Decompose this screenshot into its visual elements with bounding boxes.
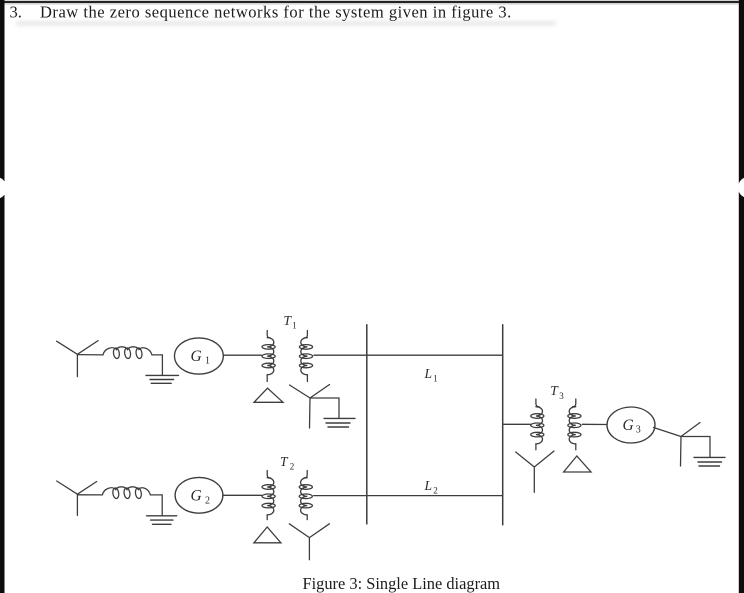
svg-text:1: 1 — [433, 374, 438, 384]
delta symbol T3 secondary — [564, 456, 591, 472]
neutral reactor (inductor) G2 — [102, 487, 150, 499]
label G1 — [191, 348, 211, 367]
neutral reactor (inductor) G1 — [103, 347, 152, 359]
ground G3 neutral — [694, 457, 725, 466]
label T1 — [284, 313, 297, 331]
line L1 (T1 to bus 2) — [314, 354, 503, 356]
heading text — [10, 2, 512, 21]
generator G3 — [607, 407, 655, 443]
wire G3 to star point — [654, 428, 682, 437]
svg-text:L: L — [424, 366, 433, 381]
svg-text:Figure 3: Single Line diagram: Figure 3: Single Line diagram — [303, 574, 501, 593]
transformer T2 winding 2 — [299, 471, 312, 520]
label L1 — [424, 366, 438, 384]
svg-text:Draw the zero sequence network: Draw the zero sequence networks for the … — [40, 2, 512, 21]
svg-text:G: G — [191, 348, 202, 365]
svg-text:2: 2 — [433, 486, 438, 496]
wye symbol G2 star point — [57, 481, 97, 515]
wire reactor G2 to ground — [150, 495, 162, 516]
wire G2 to T2 — [223, 494, 262, 496]
wire G2 star to reactor — [77, 494, 102, 496]
figure caption — [303, 574, 501, 593]
svg-text:3: 3 — [559, 391, 564, 401]
transformer T1 winding 2 — [299, 331, 312, 382]
transformer T2 winding 1 — [262, 471, 275, 520]
svg-text:1: 1 — [292, 321, 297, 331]
svg-text:L: L — [424, 478, 433, 493]
delta symbol T1 primary — [254, 388, 283, 402]
svg-text:1: 1 — [205, 356, 210, 367]
label L2 — [424, 478, 438, 496]
wye symbol T2 secondary — [289, 524, 329, 560]
ground G2 neutral — [147, 516, 177, 525]
wire T1 wye to ground — [310, 398, 339, 418]
label G3 — [623, 417, 641, 436]
bus 2 — [502, 325, 504, 525]
svg-text:2: 2 — [290, 462, 295, 472]
svg-text:G: G — [623, 417, 634, 434]
generator G2 — [175, 477, 223, 513]
wire T3 to G3 — [582, 423, 607, 425]
svg-text:3: 3 — [636, 425, 641, 436]
wye symbol T3 primary — [516, 451, 554, 492]
wire G3 star to ground — [681, 437, 710, 458]
generator G1 — [175, 338, 224, 374]
transformer T3 winding 1 — [531, 399, 544, 450]
transformer T1 winding 1 — [262, 331, 275, 382]
page right edge bar (scan border) — [738, 0, 744, 593]
svg-text:3.: 3. — [10, 2, 22, 21]
line L2 (T2 to bus 2) — [314, 495, 503, 497]
ground G1 neutral — [146, 375, 179, 383]
transformer T3 winding 2 — [568, 399, 581, 450]
wye symbol G1 star point — [57, 341, 99, 377]
svg-text:2: 2 — [205, 496, 210, 507]
scan smudge artifact — [16, 22, 556, 25]
wye symbol T1 secondary — [290, 385, 330, 429]
wire G1 to T1 — [223, 354, 261, 356]
svg-text:G: G — [191, 488, 202, 505]
ground T1 neutral — [324, 418, 355, 427]
wire G1 star to reactor — [77, 354, 103, 356]
bus 1 — [366, 325, 368, 524]
label T3 — [550, 383, 564, 401]
page left edge bar (scan border) — [0, 0, 7, 593]
page top edge line (scan border) — [5, 1, 740, 5]
wire bus 2 to T3 — [503, 423, 532, 425]
wire reactor G1 to ground — [152, 355, 162, 375]
delta symbol T2 primary — [254, 527, 281, 543]
label G2 — [191, 488, 211, 507]
label T2 — [280, 454, 294, 472]
wye symbol G3 star point — [681, 423, 701, 467]
